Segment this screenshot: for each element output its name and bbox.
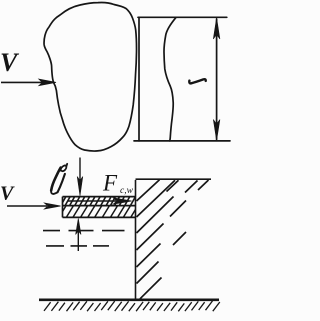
label h_d (rotated, hand-drawn): [51, 164, 67, 194]
wall top edge (bottom diagram): [136, 178, 212, 180]
mud level dashed line 2: [46, 245, 109, 247]
boulder (irregular rock outline): [44, 2, 136, 151]
wall bottom edge: [134, 140, 230, 142]
svg-text:F: F: [102, 171, 118, 196]
wall left edge (top view rectangle): [138, 17, 140, 141]
svg-text:c,w: c,w: [120, 186, 134, 196]
dimension arrowhead up (top of l): [213, 18, 220, 39]
debris strip left end: [62, 197, 64, 218]
debris strip top edge: [63, 196, 136, 198]
wall left edge (bottom diagram): [135, 180, 137, 300]
ground hatching ticks: [44, 301, 220, 311]
debris layer strip hatching (lower band): [53, 206, 138, 218]
debris strip bottom edge: [63, 216, 136, 218]
debris strip mid line: [63, 205, 136, 207]
velocity arrow V (bottom): [7, 205, 47, 207]
dimension line h_d upper: [79, 158, 81, 181]
ground line: [39, 298, 219, 301]
height dimension line l: [216, 19, 218, 140]
force arrow F_c,w: [68, 200, 116, 202]
mud level dashed line 1: [43, 230, 125, 232]
internal wavy seam line in wall: [164, 17, 176, 140]
debris layer strip hatching (dense top band): [56, 196, 136, 205]
wall top edge: [138, 16, 227, 18]
label l (rotated italic, hand-drawn): [189, 79, 205, 83]
svg-text:V: V: [0, 48, 20, 77]
velocity arrow V (top): [1, 81, 42, 83]
wall hatching: [137, 180, 209, 299]
dimension line h_d lower: [77, 230, 79, 251]
dimension arrowhead down (bottom of l): [213, 120, 220, 141]
svg-text:V: V: [0, 183, 15, 205]
